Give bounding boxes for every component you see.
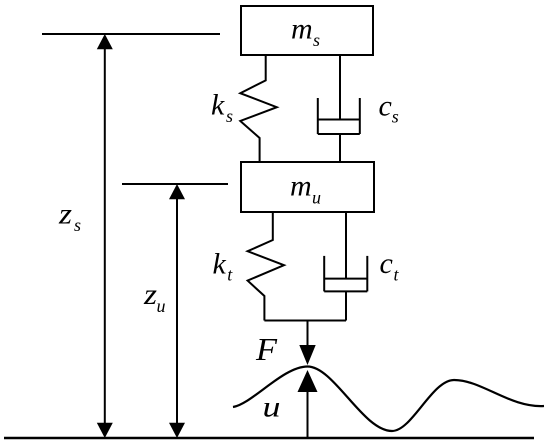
ground (4, 437, 534, 439)
label c_t (380, 247, 400, 285)
svg-text:z: z (58, 198, 72, 231)
mass m_u box (241, 162, 374, 212)
label m_s (291, 12, 320, 50)
svg-text:m: m (291, 12, 313, 45)
damper c_s (318, 55, 360, 162)
dimension arrow z_s (97, 34, 113, 438)
svg-text:s: s (226, 106, 233, 126)
svg-text:t: t (227, 265, 233, 285)
mass m_s box (241, 6, 373, 55)
label z_u (143, 278, 166, 316)
spring k_s (240, 55, 276, 162)
svg-text:F: F (255, 331, 278, 367)
svg-text:u: u (263, 391, 281, 424)
dimension arrow z_u (169, 184, 185, 438)
svg-text:t: t (394, 265, 400, 285)
svg-text:u: u (312, 188, 321, 208)
road input arrow u (up) (298, 370, 318, 438)
svg-text:c: c (380, 247, 393, 280)
label z_s (58, 198, 81, 235)
label u (263, 391, 281, 424)
svg-text:z: z (143, 278, 157, 311)
force arrow F (down) (299, 321, 315, 366)
svg-text:s: s (74, 215, 81, 235)
svg-text:u: u (157, 296, 166, 316)
label c_s (379, 89, 399, 126)
label k_t (213, 247, 234, 284)
svg-text:s: s (392, 107, 399, 127)
damper c_t (324, 212, 367, 321)
svg-text:s: s (313, 30, 320, 50)
wire tire bottom bar (264, 320, 346, 322)
road profile wave (233, 367, 544, 432)
label F (255, 331, 278, 367)
label m_u (290, 170, 321, 208)
svg-text:c: c (379, 89, 392, 122)
svg-text:m: m (290, 170, 312, 203)
svg-text:k: k (211, 89, 225, 122)
node zs reference line (42, 33, 220, 35)
label k_s (211, 89, 233, 127)
spring k_t (248, 212, 284, 321)
svg-text:k: k (213, 247, 227, 280)
node zu reference line (122, 183, 228, 185)
